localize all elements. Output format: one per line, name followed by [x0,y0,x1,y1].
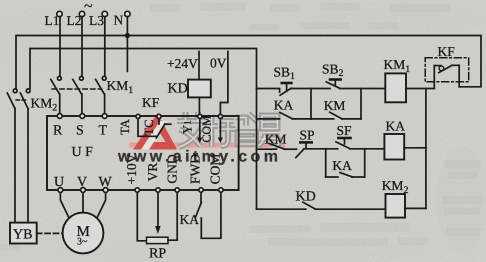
rung3: wire left to KD contact [257,208,306,210]
rung1 left lead to SB1 [257,89,280,93]
KM2 linkage dashed [16,99,27,101]
pin +10V terminal [135,188,139,192]
svg-text:RP: RP [149,247,166,262]
svg-text:KM: KM [265,132,287,147]
SB2 actuator [330,80,341,85]
wire KM-parallel left [311,118,334,120]
riser junction d [364,149,366,177]
svg-text:KA: KA [386,119,406,134]
wire +24V to KD [198,52,200,80]
red A logo [133,113,177,150]
contactor coil KM2 box [386,194,406,218]
char 3 [236,114,258,145]
svg-text:L2: L2 [67,13,82,28]
relay contact KM (parallel SB2) [330,112,342,119]
wire KA-parallel-SF left [326,176,338,178]
relay contact KA (parallel SB1) [280,112,293,118]
riser junction c [325,149,327,177]
relay contact KA (parallel SF) [340,173,352,177]
motor M circle [63,213,104,254]
relay contact KM (rung2) [269,144,284,150]
svg-text:KF: KF [142,95,160,110]
switch SP arm [296,149,304,158]
svg-text:KD: KD [296,190,316,205]
svg-text:KA: KA [180,212,200,227]
pin W terminal [103,188,108,193]
pin GND terminal [175,188,179,192]
pin Y1 terminal [198,114,202,118]
relay contact KF (TA-TC) [138,119,171,138]
wire SF to KA coil [350,148,385,150]
relay coil KA box [384,134,404,160]
inverter UF box [47,116,239,190]
svg-text:TC: TC [142,120,156,136]
wire KA-parallel left [257,118,280,120]
svg-text:TA: TA [118,119,132,135]
svg-text:V: V [77,175,87,190]
wire KM to SP [284,148,296,150]
pin COM-top terminal [218,114,222,118]
wire top bus 1 [16,36,481,89]
brake YB box [10,223,37,244]
char 1 [177,112,205,147]
riser junction a [310,89,312,119]
svg-text:+10V: +10V [124,153,139,184]
SB1 actuator [282,83,292,90]
potentiometer RP box [147,237,169,243]
wire COM inner stem with arrow [218,119,223,143]
svg-text:KM: KM [324,98,346,113]
node L3 terminal [102,11,107,16]
wire KA coil to rail [404,147,426,149]
svg-text:0V: 0V [210,56,227,71]
KM1 linkage dashed [52,88,102,90]
wire KA-parallel-SF right [352,176,365,178]
pin FWD terminal [199,188,203,192]
wire GND down to RP [168,192,177,240]
contactor KM1 main contact a (L1) [51,76,62,113]
fake CJK watermark characters (gray embossed) [177,112,280,148]
wire SB2 to KM1 coil [340,88,386,90]
wire +10V down to RP [137,192,146,240]
svg-text:KA: KA [274,98,294,113]
svg-text:L3: L3 [89,13,104,28]
svg-text:KA: KA [332,158,352,173]
relay contact KD [303,202,315,209]
pin V terminal [81,188,86,193]
wire L2 drop [81,17,83,77]
svg-text:YB: YB [13,228,32,243]
contactor KM2 contact a [7,36,17,223]
svg-text:COM: COM [208,154,223,185]
wire SB1 to SB2 [291,88,330,90]
pin TA terminal [136,114,140,118]
contactor KM1 main contact b (L2) [73,76,84,113]
svg-text:U: U [54,175,64,190]
wire KM1 coil to KF [406,88,434,90]
contactor KM1 main contact c (L3) [96,76,107,113]
svg-text:3~: 3~ [77,237,88,248]
contactor KM2 contact b [20,89,30,223]
svg-text:R: R [53,124,63,139]
pin VR terminal [156,188,160,192]
node N terminal [125,11,130,16]
svg-text:SP: SP [300,128,315,143]
KF left lead [433,66,435,89]
svg-text:U F: U F [72,145,94,160]
svg-text:+24V: +24V [167,56,198,71]
svg-text:KF: KF [438,44,456,59]
wire KD to Y1 [198,97,200,114]
svg-text:COM: COM [199,115,213,143]
pin COM-bottom terminal [219,188,223,192]
contactor coil KM1 box [385,73,406,102]
relay contact KA (FWD-COM) [196,192,221,238]
wire U to motor [60,192,68,217]
rung2: wire left to KM contact [257,148,277,150]
svg-text:S: S [76,124,84,139]
svg-text:FWD: FWD [188,154,203,184]
dashed YB-motor link [37,232,63,234]
node L1 terminal [57,11,62,16]
wire KD to KM2 coil [315,208,385,210]
pin T terminal [102,114,107,119]
wire top bus 2 [30,49,257,210]
right coil rail [425,89,427,209]
svg-text:L1: L1 [45,13,60,28]
svg-text:T: T [99,124,108,139]
svg-text:W: W [99,175,113,190]
wire W to motor [97,192,105,217]
KF dash-dot box [425,58,469,82]
red underline band [129,143,285,148]
svg-text:SF: SF [337,123,353,138]
relay KD coil box [188,80,211,98]
wire SP to SF [304,148,338,150]
junction dot N x bus1 [125,33,130,38]
pin TC terminal [157,114,161,118]
KF contact internals [434,65,459,87]
wire N drop stub [126,17,128,72]
riser junction b [360,89,362,119]
pin R terminal [57,114,62,119]
wire KA-parallel right [292,118,311,120]
node L2 terminal [79,11,84,16]
wire L3 drop [104,17,106,77]
SP actuator [300,142,311,148]
pushbutton SB2 arm [326,82,339,88]
svg-text:N: N [114,13,124,28]
wire KM-parallel right [342,118,361,120]
char 4 [259,116,280,148]
wire 0V to COM-top [220,52,228,115]
svg-text:KD: KD [168,82,188,97]
wire KM2 coil to rail [405,207,426,209]
wire VR wiper arrow [155,192,161,234]
pin S terminal [80,114,85,119]
switch SF arm [336,142,350,149]
watermark layer [117,112,285,166]
wire L1 drop [59,17,61,77]
wire V to motor [82,192,84,212]
SF actuator [338,138,350,144]
char 2 [206,115,236,147]
pin U terminal [58,188,63,193]
pushbutton SB1 arm [280,88,291,95]
wire Y1 inner stem with arrow [197,119,202,143]
svg-text:VR: VR [145,163,160,182]
svg-text:GND: GND [165,154,180,183]
